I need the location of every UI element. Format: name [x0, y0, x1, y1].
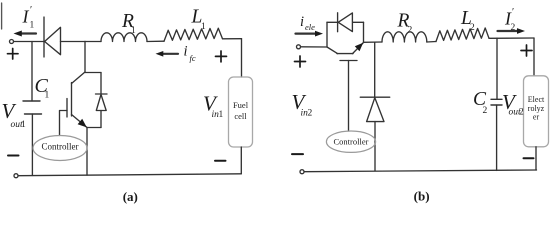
svg-text:2: 2 [470, 23, 475, 33]
wire: corner down to electrolyzer top [533, 38, 535, 76]
minus sign bottom-left (a) [8, 155, 19, 157]
wire: terminal to diode D1 (a) [14, 41, 44, 43]
wire: R1 to L1 [147, 40, 164, 42]
capacitor C2 branch: top lead [496, 38, 498, 99]
diode D4 freewheel (b) top lead [374, 42, 376, 97]
capacitor C1 bottom lead [31, 114, 33, 175]
arrow i_ele current arrow (b) [296, 31, 324, 37]
capacitor C2 bottom lead [496, 105, 498, 170]
label i_ele [300, 14, 315, 32]
svg-text:Controller: Controller [42, 142, 79, 152]
wire: Q1 emitter down to rail [86, 128, 88, 176]
wire: stray crop mark at left edge [1, 3, 3, 29]
diode D3 antiparallel (b), pointing left [338, 13, 353, 32]
svg-text:(a): (a) [123, 189, 138, 204]
inductor L2 (drawn as zigzag) [436, 28, 489, 42]
svg-text:i: i [300, 14, 304, 30]
svg-text:2: 2 [511, 23, 516, 33]
wire: Q2 gate lead down to controller (b) [348, 61, 350, 132]
label L2 [460, 8, 475, 33]
svg-text:Elect: Elect [528, 95, 545, 104]
transistor Q1 IGBT body [67, 72, 87, 128]
svg-text:2: 2 [519, 108, 524, 118]
svg-text:2: 2 [408, 26, 413, 36]
svg-text:1: 1 [30, 21, 35, 31]
label R2 [397, 11, 413, 36]
label V_out2 [502, 90, 524, 118]
wire: collector node to diode D2 top [85, 72, 101, 74]
capacitor C1 plates [23, 101, 42, 114]
wire: corner down to fuel cell top [241, 39, 243, 77]
wire: bottom rail (a) [18, 174, 241, 176]
capacitor C1 branch: top lead [31, 42, 33, 102]
wire: R2 to L2 [427, 41, 436, 44]
electrolyzer box V_out2 load [524, 76, 549, 147]
svg-text:′: ′ [30, 5, 32, 16]
plus sign right (a) near fuel cell [216, 51, 227, 62]
wire: Q1 gate lead to controller [60, 111, 68, 136]
inductor L1 (drawn as zigzag) [164, 28, 223, 41]
wire: terminal to switch left node (b) [301, 46, 327, 48]
wire: L1 to top-right corner [223, 38, 242, 40]
label I'1 [22, 5, 35, 31]
svg-text:Controller: Controller [334, 137, 369, 147]
svg-text:1: 1 [45, 91, 50, 101]
svg-text:fc: fc [190, 53, 196, 63]
label L1 [191, 7, 207, 33]
svg-text:Fuel: Fuel [233, 100, 249, 110]
label V_out1 [2, 99, 27, 130]
label Elect rolyz er [528, 95, 545, 122]
wire: left vertical up to antiparallel diode branch [326, 22, 328, 47]
svg-text:(b): (b) [414, 189, 430, 204]
wire: D1 to R1 coil [61, 41, 102, 43]
minus sign left (b) [292, 153, 303, 155]
svg-text:cell: cell [234, 111, 247, 121]
wire: electrolyzer bottom to rail [535, 147, 537, 170]
svg-text:ele: ele [305, 22, 315, 32]
label V_in1 [203, 92, 224, 121]
transistor Q2 IGBT body (horizontal) [327, 43, 364, 61]
svg-text:2: 2 [483, 106, 488, 116]
svg-text:i: i [184, 44, 188, 60]
diode D4 freewheel (b), pointing up, wide cathode bar [360, 97, 389, 171]
transistor Q1 collector lead [84, 41, 86, 72]
diode D1 (a) input series diode, cathode bar tall [44, 17, 61, 57]
wire: bottom rail (b) [304, 170, 537, 172]
arrow I'2 current arrow (b) [498, 28, 526, 34]
resistor R1 (drawn as 4-hump coil) [101, 33, 147, 42]
svg-text:1: 1 [201, 22, 206, 32]
resistor R2 (drawn as 4-hump coil) [382, 32, 427, 42]
minus sign right (b) [524, 157, 534, 159]
svg-text:′: ′ [512, 7, 514, 18]
label Fuel cell [233, 100, 249, 121]
minus sign right (a) [215, 160, 226, 162]
label I'2 [504, 7, 516, 33]
svg-text:2: 2 [308, 109, 313, 119]
svg-text:er: er [533, 113, 540, 122]
arrow I'1 current arrow (a) [14, 31, 37, 37]
plus sign right (b) [521, 45, 532, 56]
label i_fc [184, 44, 196, 64]
wire: L2 to top-right corner (b) [489, 37, 534, 39]
svg-text:1: 1 [131, 26, 136, 36]
wire: D2 bottom to emitter node [87, 127, 101, 129]
label C2 [473, 89, 488, 116]
node: circuit (a) top-left terminal [10, 40, 14, 44]
diode D2 freewheel (a), pointing up [96, 73, 108, 128]
wire: switch output node to R2 [364, 41, 383, 43]
controller (a) ellipse [33, 136, 87, 161]
label C1 [35, 75, 50, 101]
wire: fuel cell bottom to rail [240, 147, 242, 174]
svg-text:1: 1 [219, 110, 224, 120]
wire: right vertical of diode branch down [363, 22, 365, 42]
node: circuit (b) bottom-left terminal [300, 170, 304, 174]
node: circuit (a) bottom-left terminal [14, 174, 18, 178]
label R1 [121, 11, 136, 36]
svg-text:I: I [22, 7, 30, 27]
plus sign top-left (a) [8, 49, 19, 60]
capacitor C2 plates [491, 99, 502, 105]
fuel cell box V_in1 source [229, 77, 253, 147]
node: circuit (b) top-left terminal [297, 45, 301, 49]
svg-text:1: 1 [21, 120, 26, 130]
controller (b) ellipse [326, 131, 375, 152]
wire: top branch of switch (b) [327, 21, 364, 23]
arrow i_fc current arrow (a) [156, 51, 179, 57]
label V_in2 [292, 90, 313, 119]
plus sign left (b) [295, 56, 306, 67]
